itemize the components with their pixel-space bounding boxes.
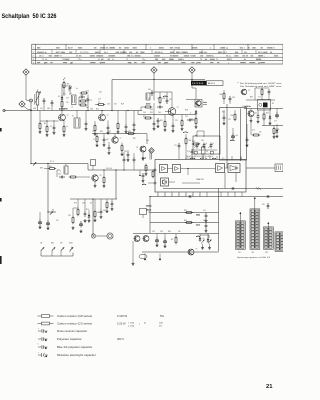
cap out3 <box>223 115 225 117</box>
svg-text:C60: C60 <box>124 151 127 153</box>
small part right of target <box>140 209 147 215</box>
coil L4 <box>146 93 150 100</box>
svg-text:T8: T8 <box>200 59 202 61</box>
svg-text:■AM■FM: ■AM■FM <box>59 108 68 111</box>
cap C12b <box>153 121 155 123</box>
svg-text:10%: 10% <box>159 322 163 324</box>
svg-text:3.4: 3.4 <box>269 235 271 237</box>
svg-text:C74: C74 <box>274 121 277 123</box>
wire y253 <box>142 251 219 253</box>
electrolytic C13 <box>232 133 234 135</box>
cluster LM parts <box>77 208 79 210</box>
svg-text:C64: C64 <box>146 140 149 142</box>
svg-text:44.4: 44.4 <box>104 52 108 54</box>
IF transformer L3 <box>74 118 80 128</box>
svg-text:R40: R40 <box>49 166 52 168</box>
cap C20 <box>178 143 180 145</box>
tuning box <box>193 136 220 154</box>
trim cap C1 <box>43 98 45 100</box>
resistor R12c <box>159 96 161 98</box>
svg-text:■4W■: ■4W■ <box>230 139 235 142</box>
svg-text:3.4: 3.4 <box>281 246 283 248</box>
svg-text:3.4: 3.4 <box>241 247 243 249</box>
svg-text:0.125 W: 0.125 W <box>117 314 127 318</box>
scan mark left 2 <box>0 198 2 202</box>
wire mid right <box>140 133 147 135</box>
svg-text:1.2: 1.2 <box>251 247 253 249</box>
wire vertical x150b <box>149 197 151 234</box>
diode D7 <box>88 213 90 215</box>
resistor R2 <box>61 100 63 102</box>
svg-text:0s: 0s <box>76 88 78 90</box>
transistor T7 <box>134 236 140 242</box>
svg-text:R9: R9 <box>171 239 173 241</box>
svg-text:3.4: 3.4 <box>256 214 258 216</box>
coil L8 <box>202 147 206 154</box>
svg-text:T63: T63 <box>265 252 268 254</box>
wire R1 to line <box>63 91 65 96</box>
module box right <box>220 108 247 161</box>
svg-text:1.2: 1.2 <box>251 241 253 243</box>
svg-text:C62 L40: C62 L40 <box>106 168 112 170</box>
ladder top symbol <box>267 203 269 205</box>
svg-text:T61: T61 <box>238 252 241 254</box>
svg-text:C89: C89 <box>47 108 50 110</box>
svg-text:C55: C55 <box>185 116 188 118</box>
resistor R32 <box>127 133 129 135</box>
svg-text:2k2: 2k2 <box>66 102 69 104</box>
tuning box squares <box>195 151 198 154</box>
svg-text:C77: C77 <box>174 145 177 147</box>
svg-text:68.00: 68.00 <box>158 52 163 54</box>
resistor R17 <box>263 112 265 114</box>
connector box right edge <box>275 164 283 172</box>
svg-text:C36: C36 <box>107 104 110 106</box>
wire band switch line <box>31 163 88 165</box>
svg-text:+: + <box>38 328 39 330</box>
cap C8 <box>125 124 127 126</box>
resistor R5 <box>39 122 41 124</box>
svg-text:1.2: 1.2 <box>251 244 253 246</box>
resistor R3 <box>79 100 81 102</box>
svg-text:48: 48 <box>258 62 260 64</box>
resistor R15c <box>273 127 275 129</box>
svg-text:10k: 10k <box>97 212 100 214</box>
svg-text:3.4: 3.4 <box>256 238 258 240</box>
cap C14b <box>246 137 248 139</box>
wire vertical x93 <box>92 199 94 235</box>
transistor T2 <box>99 114 106 121</box>
svg-text:Polyester capacitor: Polyester capacitor <box>57 337 82 341</box>
svg-text:AB 12-4: AB 12-4 <box>208 82 215 85</box>
wire bus y196 right <box>150 196 283 198</box>
svg-text:Schaltplan 50 IC 326: Schaltplan 50 IC 326 <box>2 14 58 20</box>
svg-text:C12: C12 <box>98 99 101 101</box>
IC left edge pins <box>154 169 156 171</box>
ground G11 <box>153 127 155 129</box>
svg-text:1.2: 1.2 <box>251 223 253 225</box>
svg-text:1.2: 1.2 <box>265 244 267 246</box>
svg-text:C45: C45 <box>158 112 161 114</box>
svg-text:3.4: 3.4 <box>241 229 243 231</box>
svg-text:3.4: 3.4 <box>256 223 258 225</box>
small box part <box>91 160 96 166</box>
IC box outline <box>155 160 246 193</box>
transistor T6 <box>92 175 98 181</box>
voltage ladder 3 <box>264 227 274 249</box>
wire cluster A <box>78 97 80 105</box>
voltage ladder 4 <box>275 232 285 251</box>
svg-text:T62: T62 <box>252 252 255 254</box>
voltage ladder 1 <box>236 221 246 249</box>
svg-text:T1: T1 <box>67 115 69 117</box>
svg-text:5%: 5% <box>160 314 164 318</box>
svg-text:3.4: 3.4 <box>281 249 283 251</box>
svg-text:3.4: 3.4 <box>256 235 258 237</box>
junction X2 <box>256 187 258 189</box>
svg-text:R94: R94 <box>168 231 171 233</box>
cap C20b <box>191 149 193 151</box>
svg-text:■4a■: ■4a■ <box>196 223 200 226</box>
svg-text:C42: C42 <box>143 112 146 114</box>
svg-text:AA 87: AA 87 <box>68 47 73 50</box>
top right small parts <box>261 88 263 90</box>
resistor R8 <box>94 124 96 126</box>
svg-text:C31: C31 <box>99 92 102 94</box>
svg-text:C40: C40 <box>148 89 151 91</box>
svg-text:4: 4 <box>196 62 197 64</box>
svg-text:T5 T/L: T5 T/L <box>42 59 47 61</box>
cap C31 <box>108 145 110 147</box>
svg-text:3.4: 3.4 <box>241 226 243 228</box>
cap C11 <box>172 123 174 125</box>
svg-text:470: 470 <box>178 231 181 233</box>
svg-text:5%: 5% <box>159 326 162 328</box>
cap C10c <box>166 98 168 100</box>
svg-text:0.25 W: 0.25 W <box>117 322 126 326</box>
svg-text:L7: L7 <box>148 98 150 100</box>
svg-text:■IC■: ■IC■ <box>142 158 146 160</box>
legend bluefoil symbol <box>38 346 42 348</box>
svg-text:C40: C40 <box>157 98 160 100</box>
svg-text:R72: R72 <box>86 209 89 211</box>
svg-text:1.2: 1.2 <box>251 217 253 219</box>
resistor R12d <box>144 117 146 119</box>
svg-text:R35: R35 <box>128 131 131 133</box>
cap C16 <box>59 176 61 178</box>
cap C9 <box>133 122 135 124</box>
svg-text:D1: D1 <box>58 96 60 98</box>
svg-text:■C75■: ■C75■ <box>183 132 188 134</box>
band switch contacts <box>41 247 44 250</box>
connector diamond J3 <box>151 67 157 73</box>
transistor T10 <box>112 137 118 143</box>
resistor R10 <box>117 122 119 124</box>
scan mark left 3 <box>0 256 2 264</box>
svg-text:21: 21 <box>266 384 273 390</box>
transistor T5b <box>248 111 254 117</box>
cap C10 <box>157 106 159 108</box>
svg-text:3.4: 3.4 <box>269 238 271 240</box>
wire y212 <box>150 212 219 214</box>
svg-text:C71: C71 <box>258 97 261 99</box>
svg-text:1.2: 1.2 <box>265 241 267 243</box>
svg-text:R63: R63 <box>192 141 195 143</box>
transistor T4 boxed <box>195 100 202 108</box>
svg-text:C72: C72 <box>242 106 245 108</box>
diode D6 <box>207 237 209 239</box>
transistor T8 <box>143 236 149 242</box>
svg-text:R37: R37 <box>133 138 136 140</box>
svg-text:3.4: 3.4 <box>256 232 258 234</box>
svg-text:C14: C14 <box>80 95 83 97</box>
legend resistor CS symbol <box>38 323 42 325</box>
svg-text:1.2: 1.2 <box>251 211 253 213</box>
wire base T1 <box>46 121 48 125</box>
svg-text:1.2: 1.2 <box>237 238 239 240</box>
svg-text:Ruso ceramic capacitor: Ruso ceramic capacitor <box>57 329 87 333</box>
svg-text:3.4: 3.4 <box>241 235 243 237</box>
resistor R18b <box>48 168 50 170</box>
ground G16 <box>142 179 144 181</box>
svg-text:C84: C84 <box>103 210 106 212</box>
svg-text:1.2: 1.2 <box>265 247 267 249</box>
svg-text:R25: R25 <box>160 120 163 122</box>
svg-text:470: 470 <box>67 84 70 86</box>
res cap pair 2 <box>185 222 187 224</box>
svg-text:1.2: 1.2 <box>237 244 239 246</box>
res cap pair 1 <box>185 212 187 214</box>
svg-text:S1: S1 <box>72 116 74 118</box>
svg-text:Carbon resistor (CR series): Carbon resistor (CR series) <box>57 314 92 318</box>
svg-text:25 db: 25 db <box>42 52 47 54</box>
svg-text:UKW: UKW <box>69 243 73 245</box>
svg-text:3: 3 <box>60 171 61 173</box>
cap C11e <box>187 119 189 121</box>
resistor R22 <box>185 137 187 139</box>
svg-text:470: 470 <box>259 132 262 134</box>
antenna input terminal <box>3 109 5 111</box>
wire stage2 tops <box>159 92 161 96</box>
ground G5 <box>85 127 87 129</box>
svg-text:R31: R31 <box>191 119 194 121</box>
svg-text:3.4: 3.4 <box>269 229 271 231</box>
svg-text:C13: C13 <box>66 98 69 100</box>
svg-text:1.2: 1.2 <box>251 226 253 228</box>
svg-text:1.2: 1.2 <box>265 232 267 234</box>
resistor R24 <box>94 210 96 212</box>
svg-text:T5: T5 <box>216 59 218 61</box>
svg-text:C60: C60 <box>201 140 204 142</box>
svg-text:25.472.00: 25.472.00 <box>80 52 88 54</box>
svg-text:C47: C47 <box>169 99 172 101</box>
connector diamond J1 <box>23 69 29 75</box>
svg-text:C96: C96 <box>160 231 163 233</box>
svg-text:C82: C82 <box>68 215 71 217</box>
svg-text:3.4: 3.4 <box>256 217 258 219</box>
cap C30 <box>103 137 105 139</box>
transistor T12 <box>241 89 247 95</box>
resistor R25 <box>106 201 108 203</box>
cap C5 <box>85 121 87 123</box>
svg-text:+: + <box>38 352 39 354</box>
transistor T11 <box>140 146 146 152</box>
svg-text:1k: 1k <box>66 126 68 128</box>
svg-text:R14: R14 <box>63 94 66 96</box>
svg-text:L02: L02 <box>40 108 43 110</box>
transistor T1 <box>59 114 66 121</box>
svg-text:S 2.1: S 2.1 <box>50 161 54 163</box>
legend resistor CR symbol <box>38 315 42 317</box>
svg-text:C51: C51 <box>175 120 178 122</box>
cap C32 <box>127 152 129 154</box>
svg-text:3.4: 3.4 <box>269 241 271 243</box>
svg-text:C88: C88 <box>33 108 36 110</box>
svg-text:1.2: 1.2 <box>251 232 253 234</box>
svg-text:1.2: 1.2 <box>251 220 253 222</box>
resistor R4 <box>79 104 81 106</box>
resistor R30 <box>96 135 98 137</box>
wire vertical x218 <box>218 189 220 252</box>
electrolytic C24 <box>164 238 166 240</box>
svg-text:■45Z■: ■45Z■ <box>146 209 151 212</box>
svg-text:3.4: 3.4 <box>241 232 243 234</box>
cap C17 <box>123 157 125 159</box>
svg-text:1.2: 1.2 <box>265 235 267 237</box>
ground G1 <box>39 130 41 132</box>
svg-text:TBA 570: TBA 570 <box>196 178 205 181</box>
svg-text:< 1 kΩ: < 1 kΩ <box>128 321 135 324</box>
transistor T3 <box>168 108 176 116</box>
table row lines <box>32 49 283 51</box>
svg-text:*: * <box>38 344 39 347</box>
svg-text:R28: R28 <box>185 110 188 112</box>
table outer box <box>32 44 283 64</box>
legend polyester symbol <box>38 338 42 340</box>
IC amp block A3 <box>161 178 169 186</box>
svg-text:3.4: 3.4 <box>241 241 243 243</box>
ground G17 <box>39 226 41 228</box>
cap C33 <box>229 96 231 98</box>
svg-text:1k: 1k <box>93 139 95 141</box>
electrolytic C23 <box>156 237 158 239</box>
resistor R15b <box>234 113 236 115</box>
svg-text:C58: C58 <box>108 131 111 133</box>
diode D2 <box>195 110 197 112</box>
svg-text:R45: R45 <box>220 94 223 96</box>
svg-text:5 0 1 C 3 2 6: 5 0 1 C 3 2 6 <box>192 83 203 85</box>
cap C2 <box>51 100 53 102</box>
IC pin stubs bottom <box>157 192 159 197</box>
svg-text:Blue foil polyester capacitor: Blue foil polyester capacitor <box>57 345 92 349</box>
wire IC top pins <box>191 155 193 160</box>
svg-text:R49: R49 <box>250 97 253 99</box>
table column ticks <box>65 44 67 50</box>
svg-text:■48■: ■48■ <box>196 213 200 216</box>
svg-text:R41: R41 <box>145 168 148 170</box>
svg-text:■L40■: ■L40■ <box>190 157 195 160</box>
svg-text:3.4: 3.4 <box>256 241 258 243</box>
svg-text:T9: T9 <box>248 90 250 92</box>
electrolytic C22 <box>47 220 49 222</box>
IC amp block A5 <box>228 164 240 173</box>
svg-text:T2: T2 <box>107 115 109 117</box>
cap C6 <box>107 125 109 127</box>
wire vertical osc feed <box>111 80 113 111</box>
svg-text:3.4: 3.4 <box>256 244 258 246</box>
svg-text:R82: R82 <box>184 220 187 222</box>
svg-text:3.4: 3.4 <box>281 243 283 245</box>
voltage ladder 2 <box>250 209 260 249</box>
svg-text:3.4: 3.4 <box>241 223 243 225</box>
osc coil L2 <box>72 95 77 105</box>
svg-text:1.2: 1.2 <box>265 238 267 240</box>
ground G3 <box>53 131 55 133</box>
svg-text:R4: R4 <box>44 123 46 125</box>
resistor R3b <box>80 92 82 94</box>
svg-text:3.4: 3.4 <box>241 238 243 240</box>
svg-text:3.4: 3.4 <box>256 226 258 228</box>
svg-text:1.2: 1.2 <box>265 229 267 231</box>
IC internal wires <box>168 168 173 170</box>
ground G12 <box>195 125 197 127</box>
cap C15 <box>257 114 259 116</box>
svg-text:T4: T4 <box>230 59 232 61</box>
cap C3 <box>79 96 81 98</box>
svg-text:0.22: 0.22 <box>254 113 257 115</box>
svg-text:C86: C86 <box>90 108 93 110</box>
svg-text:C92: C92 <box>203 220 206 222</box>
svg-text:4u7: 4u7 <box>84 221 87 223</box>
svg-text:D3: D3 <box>272 103 274 105</box>
svg-text:C57: C57 <box>92 131 95 133</box>
cluster out wires <box>244 108 283 110</box>
svg-text:Die Schaltung wird mit „MW“ ve: Die Schaltung wird mit „MW“ vers. <box>240 85 283 88</box>
svg-text:C91: C91 <box>203 210 206 212</box>
wire top right link <box>224 89 244 91</box>
svg-text:1: 1 <box>244 48 245 50</box>
svg-text:T3: T3 <box>177 107 179 109</box>
resistor R6 <box>46 125 48 127</box>
arrow mark 1 <box>144 258 146 261</box>
tuning cap CV2 <box>203 143 205 145</box>
svg-text:■FM■: ■FM■ <box>163 96 168 98</box>
svg-text:C70: C70 <box>228 119 231 121</box>
svg-text:Miniature electrolytic capacit: Miniature electrolytic capacitor <box>57 353 96 357</box>
svg-text:C16: C16 <box>86 91 89 93</box>
electrolytic C14 <box>276 112 278 114</box>
transistor T9 <box>188 249 194 255</box>
svg-text:1.2: 1.2 <box>237 223 239 225</box>
cap C18 <box>133 157 135 159</box>
svg-text:R81: R81 <box>184 210 187 212</box>
oval label <box>139 254 147 258</box>
svg-text:08 48L: 08 48L <box>76 56 82 58</box>
diode D5 <box>199 236 201 238</box>
svg-text:1.2: 1.2 <box>251 229 253 231</box>
resistor R14 <box>195 117 197 119</box>
connector diamond J2 <box>19 101 25 107</box>
svg-text:R61: R61 <box>189 140 192 142</box>
diode D3b <box>269 115 271 117</box>
resistor R13 <box>181 119 183 121</box>
svg-text:3.4: 3.4 <box>269 244 271 246</box>
svg-text:T5: T5 <box>126 59 128 61</box>
junction X4 <box>189 195 191 197</box>
svg-text:1.2: 1.2 <box>237 226 239 228</box>
electrolytic C21 <box>39 219 41 221</box>
svg-text:C44: C44 <box>150 109 153 111</box>
